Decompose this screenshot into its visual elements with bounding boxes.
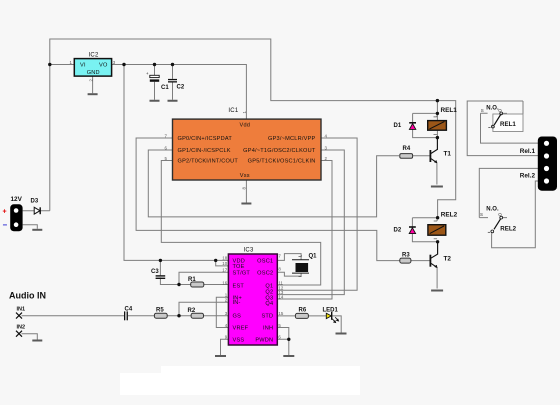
svg-text:C1: C1 <box>161 85 169 91</box>
svg-text:IN1: IN1 <box>17 307 26 313</box>
svg-text:OSC1: OSC1 <box>257 258 273 264</box>
svg-text:−: − <box>3 221 8 230</box>
svg-text:VSS: VSS <box>233 337 245 343</box>
svg-text:Vss: Vss <box>240 173 250 179</box>
svg-text:IC1: IC1 <box>228 108 238 114</box>
svg-text:Q1: Q1 <box>265 283 273 289</box>
svg-text:STD: STD <box>261 314 273 320</box>
svg-text:D2: D2 <box>394 227 402 233</box>
svg-text:Vdd: Vdd <box>240 122 251 128</box>
svg-text:REL1: REL1 <box>500 121 516 128</box>
svg-text:ST/GT: ST/GT <box>233 270 251 276</box>
svg-text:GP1/CIN-/ICSPCLK: GP1/CIN-/ICSPCLK <box>178 148 231 154</box>
svg-text:GP5/T1CKI/OSC1/CLKIN: GP5/T1CKI/OSC1/CLKIN <box>248 159 316 165</box>
svg-text:R4: R4 <box>403 146 411 152</box>
svg-text:REL1: REL1 <box>441 107 458 114</box>
svg-text:D3: D3 <box>31 199 39 205</box>
svg-text:C3: C3 <box>151 269 159 275</box>
svg-text:R1: R1 <box>188 277 196 283</box>
svg-text:C4: C4 <box>125 307 133 313</box>
svg-text:LED1: LED1 <box>323 308 339 314</box>
svg-text:GP2/T0CKI/INT/COUT: GP2/T0CKI/INT/COUT <box>178 159 239 165</box>
svg-text:Q4: Q4 <box>265 301 273 307</box>
svg-text:GP4/~T1G/OSC2/CLKOUT: GP4/~T1G/OSC2/CLKOUT <box>243 148 316 154</box>
svg-text:Audio IN: Audio IN <box>9 291 46 301</box>
svg-text:R5: R5 <box>156 308 164 314</box>
svg-text:Rel.2: Rel.2 <box>520 172 536 179</box>
svg-text:R2: R2 <box>188 308 196 314</box>
svg-text:S: S <box>480 212 483 217</box>
svg-text:IN2: IN2 <box>17 325 26 331</box>
svg-text:GS: GS <box>233 314 242 320</box>
svg-text:VREF: VREF <box>233 326 249 332</box>
svg-text:R6: R6 <box>299 308 307 314</box>
svg-text:INH: INH <box>263 326 273 332</box>
svg-text:N.O.: N.O. <box>486 206 499 212</box>
svg-text:PWDN: PWDN <box>255 337 273 343</box>
svg-text:OSC2: OSC2 <box>257 270 273 276</box>
svg-text:VO: VO <box>99 63 108 69</box>
svg-text:+: + <box>3 209 7 216</box>
svg-text:18: 18 <box>222 256 227 261</box>
svg-text:N.O.: N.O. <box>486 105 499 111</box>
svg-text:IC2: IC2 <box>89 53 99 59</box>
svg-text:17: 17 <box>222 268 227 273</box>
svg-text:REL2: REL2 <box>500 225 516 232</box>
svg-text:TOE: TOE <box>233 264 245 270</box>
svg-text:R3: R3 <box>402 253 410 259</box>
svg-text:+: + <box>146 71 149 76</box>
svg-text:EST: EST <box>233 283 245 289</box>
svg-text:15: 15 <box>278 311 283 316</box>
svg-text:14: 14 <box>278 294 283 299</box>
svg-text:IN-: IN- <box>233 300 241 306</box>
svg-text:GND: GND <box>87 70 100 76</box>
svg-text:T2: T2 <box>444 255 452 262</box>
svg-text:D1: D1 <box>394 123 402 129</box>
svg-text:T1: T1 <box>444 151 452 158</box>
svg-text:IC3: IC3 <box>244 248 254 254</box>
svg-text:12V: 12V <box>11 196 23 203</box>
svg-text:REL2: REL2 <box>441 212 458 219</box>
svg-text:S: S <box>481 108 484 113</box>
svg-text:Q1: Q1 <box>309 253 318 259</box>
svg-text:Rel.1: Rel.1 <box>520 148 536 155</box>
svg-text:C2: C2 <box>177 85 185 91</box>
svg-text:VI: VI <box>80 63 86 69</box>
svg-text:GP0/CIN+/ICSPDAT: GP0/CIN+/ICSPDAT <box>178 136 233 142</box>
svg-text:10: 10 <box>222 261 227 266</box>
svg-text:GP3/~MCLR/VPP: GP3/~MCLR/VPP <box>268 136 316 142</box>
svg-text:16: 16 <box>222 280 227 285</box>
